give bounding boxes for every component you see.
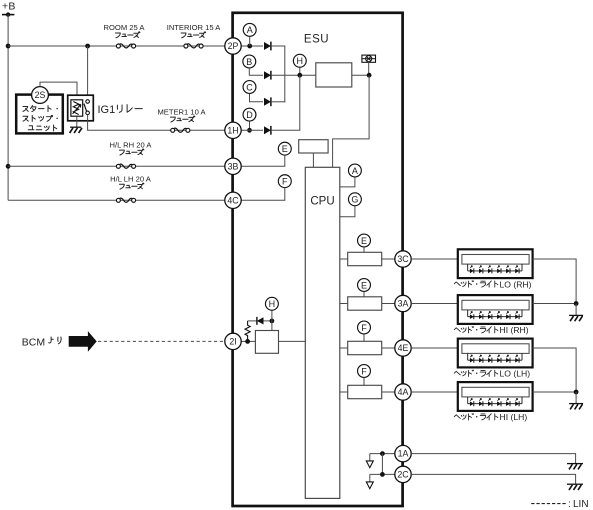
wire lamp2 to ground bus 1 xyxy=(533,303,577,305)
start-stop unit box xyxy=(16,95,63,134)
svg-text::: : xyxy=(568,499,571,510)
wire to ground 2 xyxy=(575,392,577,404)
relay IG1 box xyxy=(68,95,94,121)
diode D-C xyxy=(264,97,271,106)
node J1 junction xyxy=(367,73,372,78)
wire E stem row 3C xyxy=(363,247,365,252)
node +B battery feed xyxy=(2,1,16,17)
connector 2S xyxy=(32,87,49,104)
resistor block R4A xyxy=(348,385,382,398)
wire resistor to connector 4A xyxy=(382,391,395,393)
wire CPU to resistor row 4E xyxy=(340,347,348,349)
node J3 junction xyxy=(270,319,275,324)
ground G1 xyxy=(569,315,583,321)
fuse METER1 10 A xyxy=(157,107,206,132)
wire 2C stub drop xyxy=(369,474,371,482)
connector 3B xyxy=(225,158,241,174)
wire 1H row internal xyxy=(241,129,263,131)
connector 2I xyxy=(225,333,241,349)
wire lamp4 to ground bus 2 xyxy=(533,391,577,393)
wire relay coil to ground xyxy=(76,116,78,127)
wire 3B row to E xyxy=(241,155,285,166)
node D junction xyxy=(247,128,252,133)
wire J3 to driver box xyxy=(271,321,273,331)
node ground junction 2 xyxy=(574,390,579,395)
relay IG1 contact xyxy=(84,100,89,115)
wire diode B to H node xyxy=(271,74,316,76)
wire 4E to headlamp xyxy=(411,347,458,349)
svg-text:H/L RH 20 A: H/L RH 20 A xyxy=(110,140,153,149)
wire +B vertical bus left xyxy=(7,15,9,201)
svg-text:LO (RH): LO (RH) xyxy=(500,279,532,289)
BCM source arrow xyxy=(22,331,97,352)
circled terminal A xyxy=(243,23,256,36)
diode D-D xyxy=(264,126,271,135)
ESU module box xyxy=(233,13,403,506)
node ground junction 1 xyxy=(574,301,579,306)
wire 2S to relay coil xyxy=(40,82,77,96)
circled terminal F row 4A xyxy=(358,365,371,378)
wire relay switch feed xyxy=(87,46,89,96)
wire diode C to bus xyxy=(271,101,285,103)
CPU block xyxy=(305,167,340,498)
svg-text:C: C xyxy=(246,82,253,92)
circled terminal A right xyxy=(348,164,361,177)
svg-text:LO (LH): LO (LH) xyxy=(500,369,531,379)
wire U1 to node J1 xyxy=(352,74,369,76)
connector 3C xyxy=(395,251,411,267)
junction relay branch xyxy=(85,44,90,49)
wire lamp1 to ground bus 1 xyxy=(533,259,577,304)
svg-text:H: H xyxy=(269,299,276,309)
diode D-B xyxy=(264,71,271,80)
svg-text:3C: 3C xyxy=(397,254,409,264)
wire R1 to diode D5 xyxy=(248,320,257,322)
svg-text:BCM: BCM xyxy=(22,336,45,348)
wire CPU to resistor row 4A xyxy=(340,391,348,393)
headlamp unit LO (RH) xyxy=(458,249,533,278)
wire G to CPU xyxy=(340,206,355,217)
wire stem circle D xyxy=(249,121,251,130)
sub-block U2 above CPU xyxy=(299,140,328,153)
circled terminal F row 4E xyxy=(358,321,371,334)
wire bus A-C vertical xyxy=(284,46,286,103)
fuse ROOM 25 A xyxy=(104,23,146,48)
wire 1A stub internal xyxy=(370,453,395,455)
wire stem circle H xyxy=(299,68,301,76)
wire 2P row to diode A xyxy=(241,45,263,47)
ground relay coil xyxy=(70,127,82,133)
svg-text:METER1 10 A: METER1 10 A xyxy=(157,107,206,116)
svg-text:+B: +B xyxy=(2,1,16,13)
svg-text:INTERIOR 15 A: INTERIOR 15 A xyxy=(167,23,222,32)
wire F stem row 4E xyxy=(363,334,365,341)
svg-text:ESU: ESU xyxy=(304,33,329,45)
svg-text:E: E xyxy=(361,236,367,246)
wire diode D to H vertical xyxy=(271,129,300,131)
fuse H/L RH 20 A xyxy=(110,140,153,168)
wire H stem to J3 xyxy=(271,311,273,321)
svg-text:H: H xyxy=(297,56,304,66)
svg-text:A: A xyxy=(247,25,253,35)
node J5 junction xyxy=(380,472,385,477)
wire resistor to connector 4E xyxy=(382,347,395,349)
wire J4-J5 vertical xyxy=(381,454,383,475)
wire 1A LIN line xyxy=(411,454,575,464)
label headlamp HI (RH) xyxy=(454,325,529,335)
connector 2P xyxy=(225,38,241,54)
wire U2 to CPU xyxy=(312,153,314,167)
svg-text:E: E xyxy=(361,280,367,290)
resistor R1 vertical xyxy=(245,321,250,342)
circled terminal G xyxy=(348,193,361,206)
label headlamp HI (LH) xyxy=(454,412,527,422)
wire resistor to connector 3A xyxy=(382,303,395,305)
node H junction xyxy=(297,73,302,78)
wire stem circle B xyxy=(249,68,263,75)
svg-text:CPU: CPU xyxy=(310,196,334,208)
svg-text:H/L LH 20 A: H/L LH 20 A xyxy=(110,174,152,183)
svg-text:IG1: IG1 xyxy=(98,104,116,116)
wire A to CPU xyxy=(340,177,355,187)
circled terminal E row 3C xyxy=(358,234,371,247)
headlamp unit HI (LH) xyxy=(458,382,533,411)
wire 2C stub internal xyxy=(370,473,395,475)
legend LIN dashed xyxy=(531,499,588,510)
wire 4C row to F xyxy=(241,188,285,200)
wire lamp to node J1 xyxy=(368,62,370,75)
wire J1 to CPU top xyxy=(333,75,370,167)
svg-text:3A: 3A xyxy=(398,299,409,309)
svg-text:LIN: LIN xyxy=(573,499,589,510)
svg-text:G: G xyxy=(351,195,358,205)
label headlamp LO (RH) xyxy=(454,279,531,289)
svg-text:HI (RH): HI (RH) xyxy=(500,325,529,335)
headlamp unit HI (RH) xyxy=(458,295,533,324)
wire 3C to headlamp xyxy=(411,258,458,260)
svg-text:ROOM 25 A: ROOM 25 A xyxy=(104,23,146,32)
svg-text:4E: 4E xyxy=(398,343,409,353)
wire diode A to bus xyxy=(271,45,285,47)
diode D5 xyxy=(257,317,264,325)
connector 4C xyxy=(225,192,241,208)
terminator T1 xyxy=(366,461,373,468)
wire F stem row 4A xyxy=(363,378,365,386)
relay IG1 coil xyxy=(71,100,83,116)
wire to ground 1 xyxy=(575,304,577,316)
circled terminal C xyxy=(243,81,256,94)
wire 3A to headlamp xyxy=(411,303,458,305)
circled terminal E left xyxy=(278,142,291,155)
circled terminal F left xyxy=(278,175,291,188)
node J2 junction xyxy=(245,339,250,344)
wire H vertical to 1H row xyxy=(299,75,301,130)
connector 4A xyxy=(395,384,411,400)
connector 1H xyxy=(225,122,241,138)
fuse H/L LH 20 A xyxy=(110,174,152,202)
relay block U1 (internal) xyxy=(316,63,352,87)
wire 2P feed row xyxy=(8,45,225,47)
wire stem circle C xyxy=(250,94,264,102)
resistor block R4E xyxy=(348,341,382,354)
connector 3A xyxy=(395,295,411,311)
wire 1A stub drop xyxy=(369,454,371,461)
svg-text:F: F xyxy=(282,177,288,187)
svg-text:F: F xyxy=(361,366,367,376)
wire 3B feed row xyxy=(8,165,225,167)
svg-text:2P: 2P xyxy=(228,41,239,51)
svg-text:A: A xyxy=(352,166,358,176)
indicator lamp symbol xyxy=(362,55,376,62)
wire relay contact to METER1 fuse to 1H xyxy=(88,115,225,131)
svg-text:B: B xyxy=(246,57,252,67)
ground G2 xyxy=(569,404,583,410)
svg-text:4C: 4C xyxy=(227,195,239,205)
resistor block R3C xyxy=(348,252,382,265)
svg-text:3B: 3B xyxy=(228,161,239,171)
wire 2I row to driver xyxy=(241,340,255,342)
junction +B to 2P row xyxy=(6,44,11,49)
wire resistor to connector 3C xyxy=(382,258,395,260)
circled terminal E row 3A xyxy=(358,279,371,292)
svg-text:HI (LH): HI (LH) xyxy=(500,412,528,422)
fuse INTERIOR 15 A xyxy=(167,23,222,48)
svg-text:F: F xyxy=(361,323,367,333)
wire 4A to headlamp xyxy=(411,391,458,393)
wire CPU to resistor row 3A xyxy=(340,303,348,305)
wire stem circle A xyxy=(249,37,251,46)
svg-text:4A: 4A xyxy=(398,387,409,397)
wire 2C LIN line xyxy=(411,474,575,484)
svg-text:2I: 2I xyxy=(229,337,236,347)
label IG1 relay xyxy=(98,104,143,116)
resistor block R3A xyxy=(348,297,382,310)
junction +B to 3B row xyxy=(6,164,11,169)
svg-text:D: D xyxy=(246,110,253,120)
node A junction xyxy=(247,44,252,49)
wire E stem row 3A xyxy=(363,292,365,297)
connector 4E xyxy=(395,340,411,356)
wire lamp3 to ground bus 2 xyxy=(533,348,577,392)
circled terminal H lower xyxy=(265,297,278,310)
connector 2C xyxy=(395,466,411,482)
ground G3 xyxy=(567,464,583,470)
ground G4 xyxy=(567,484,583,490)
svg-text:E: E xyxy=(282,144,288,154)
wire 4C feed row xyxy=(8,199,225,201)
circled terminal H top xyxy=(293,54,306,67)
wire U3 to CPU left xyxy=(279,340,306,342)
wire CPU to resistor row 3C xyxy=(340,258,348,260)
svg-text:2S: 2S xyxy=(35,90,46,100)
wire BCM dashed LIN to 2I xyxy=(98,340,225,342)
svg-text:1H: 1H xyxy=(227,125,238,135)
label headlamp LO (LH) xyxy=(454,369,530,379)
wire D5 to node J3 xyxy=(264,320,272,322)
svg-text:2C: 2C xyxy=(397,470,409,480)
terminator T2 xyxy=(366,482,373,489)
circled terminal B xyxy=(243,55,256,68)
diode D-A xyxy=(264,42,271,51)
headlamp unit LO (LH) xyxy=(458,339,533,368)
circled terminal D xyxy=(243,108,256,121)
node J4 junction xyxy=(380,451,385,456)
driver block U3 xyxy=(255,331,278,354)
svg-text:1A: 1A xyxy=(398,449,409,459)
connector 1A xyxy=(395,445,411,461)
